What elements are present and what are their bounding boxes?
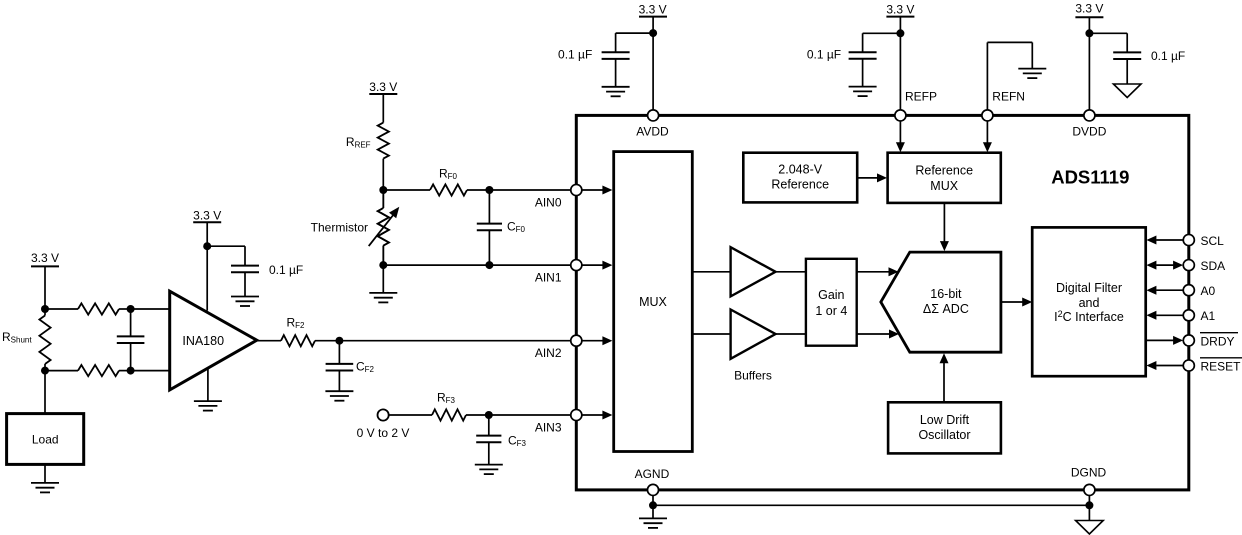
wire MUX to buffer A (692, 271, 730, 273)
svg-text:MUX: MUX (930, 179, 958, 193)
ground DVDD bypass cap (signal gnd) (1113, 84, 1141, 98)
resistor R input top (shunt+ to INA180) (45, 303, 131, 314)
wire AIN1 to pin (383, 264, 570, 266)
svg-text:AIN1: AIN1 (535, 270, 562, 284)
svg-text:3.3 V: 3.3 V (369, 80, 397, 94)
ground AVDD bypass cap (602, 87, 630, 97)
node input filter bottom (127, 367, 135, 375)
label 0.1uF (INA180 bypass) (269, 263, 303, 277)
svg-text:Reference: Reference (915, 164, 973, 178)
svg-text:3.3 V: 3.3 V (193, 208, 221, 222)
svg-text:ADS1119: ADS1119 (1051, 166, 1129, 187)
pin REFN (982, 90, 1025, 121)
IC U1 ADS1119 body (576, 115, 1189, 490)
capacitor CF2 (326, 341, 375, 392)
resistor RShunt (2, 309, 51, 371)
svg-text:3.3 V: 3.3 V (886, 3, 914, 17)
node input filter top (127, 305, 135, 313)
node AVDD bypass junction (649, 29, 657, 37)
wire arrow AIN3 to MUX (582, 411, 612, 420)
node AIN2 filter junction (335, 337, 343, 345)
label 0.1uF (AVDD bypass) (558, 48, 592, 62)
pin DVDD (1072, 110, 1106, 139)
wire arrow 2.048-V Reference to Reference MUX (857, 173, 887, 182)
wire arrow SDA (1146, 261, 1183, 270)
wire arrow A1 (1146, 311, 1183, 320)
pin AGND (635, 467, 670, 495)
svg-text:I2C Interface: I2C Interface (1054, 309, 1124, 324)
capacitor CF0 (477, 190, 526, 265)
block Digital Filter and I2C Interface (1032, 227, 1146, 376)
resistor RF3 (389, 391, 489, 421)
node DVDD bypass junction (1085, 29, 1093, 37)
power supply 3.3V (shunt) (31, 251, 59, 309)
block Low Drift Oscillator (888, 402, 1001, 453)
svg-text:Buffers: Buffers (734, 369, 772, 383)
svg-text:0.1 µF: 0.1 µF (558, 48, 592, 62)
svg-text:0.1 µF: 0.1 µF (807, 48, 841, 62)
node shunt bottom junction (41, 367, 49, 375)
ground INA180 (194, 368, 222, 410)
wire arrow Oscillator to ADC (940, 353, 949, 402)
ground INA180 bypass cap (231, 297, 259, 307)
pin SDA (1183, 259, 1225, 273)
wire arrow Gain to ADC (top) (857, 267, 899, 276)
pin A0 (1183, 284, 1215, 298)
svg-text:MUX: MUX (639, 295, 667, 309)
node DGND junction (1085, 501, 1093, 509)
wire arrow SCL (1146, 236, 1183, 245)
svg-text:DRDY: DRDY (1201, 334, 1235, 348)
block Reference MUX (888, 153, 1001, 203)
ground REFP bypass cap (849, 87, 877, 97)
capacitor 0.1uF (DVDD bypass) (1089, 33, 1141, 84)
block Load (7, 414, 84, 465)
buffer amplifier B (AINN) (731, 310, 776, 359)
svg-text:AIN2: AIN2 (535, 346, 562, 360)
ground DGND (signal gnd) (1076, 505, 1104, 534)
node INA180 supply junction (203, 242, 211, 250)
wire arrow ADC to Digital Filter (1001, 298, 1032, 307)
resistor RF2 (257, 316, 340, 347)
ground thermistor (369, 265, 397, 302)
wire shunt to load (44, 371, 46, 414)
svg-text:A1: A1 (1201, 309, 1216, 323)
wire arrow AIN2 to MUX (582, 336, 612, 345)
pin AIN2 (535, 335, 582, 360)
power supply 3.3V (RREF) (369, 80, 397, 122)
svg-text:A0: A0 (1201, 284, 1216, 298)
ground CF3 (475, 465, 503, 475)
svg-text:0 V to 2 V: 0 V to 2 V (357, 426, 410, 440)
block 2.048-V Reference (743, 153, 857, 203)
pin AIN3 (535, 409, 582, 434)
wire arrow A0 (1146, 286, 1183, 295)
svg-text:Thermistor: Thermistor (311, 221, 368, 235)
svg-text:RESET: RESET (1201, 359, 1242, 373)
wire AIN3 to pin (489, 414, 571, 416)
pin DGND (1071, 466, 1107, 496)
ADC block 16-bit delta-sigma (881, 252, 1001, 352)
node shunt top junction (41, 305, 49, 313)
capacitor CF3 (476, 415, 526, 465)
svg-text:16-bit: 16-bit (930, 287, 962, 301)
pin SCL (1183, 234, 1224, 248)
ground AGND (earth) (639, 505, 667, 528)
svg-text:AVDD: AVDD (636, 125, 669, 139)
capacitor input differential filter (117, 309, 145, 371)
resistor RREF (346, 123, 389, 190)
svg-text:ΔΣ ADC: ΔΣ ADC (923, 302, 969, 316)
node AIN0 divider junction (379, 186, 387, 194)
wire AIN2 to pin (339, 340, 570, 342)
wire arrow REFP to Reference MUX (896, 121, 905, 152)
terminal 0V-2V input (357, 409, 410, 440)
node CF3 junction (485, 411, 493, 419)
wire REFN to ground (987, 42, 1032, 109)
label ADS1119 (1051, 166, 1129, 187)
label Buffers (734, 369, 772, 383)
wire to op-amp - input (131, 370, 170, 372)
svg-text:0.1 µF: 0.1 µF (1151, 49, 1185, 63)
svg-text:1 or 4: 1 or 4 (815, 304, 847, 318)
op-amp U2 INA180 (170, 291, 257, 390)
svg-text:3.3 V: 3.3 V (31, 251, 59, 265)
svg-text:Oscillator: Oscillator (918, 428, 970, 442)
svg-text:2.048-V: 2.048-V (778, 162, 822, 176)
svg-text:Digital Filter: Digital Filter (1056, 281, 1122, 295)
svg-text:Low Drift: Low Drift (920, 413, 970, 427)
wire MUX to buffer B (692, 333, 730, 335)
node CF0 top junction (485, 186, 493, 194)
capacitor 0.1uF (REFP bypass) (849, 33, 901, 86)
wire buffer A to Gain block (776, 271, 806, 273)
wire AIN0 to pin (489, 189, 570, 191)
svg-text:SCL: SCL (1201, 234, 1225, 248)
wire arrow AIN0 to MUX (582, 186, 612, 195)
capacitor 0.1uF (AVDD bypass) (602, 33, 654, 87)
wire arrow DRDY (1146, 336, 1183, 345)
pin REFP (895, 90, 937, 121)
wire arrow RESET (1146, 361, 1183, 370)
ground below Load (31, 464, 59, 492)
node AIN1 divider junction (379, 261, 387, 269)
power supply 3.3V (DVDD) (1075, 2, 1103, 110)
svg-text:REFP: REFP (905, 90, 937, 104)
node AGND junction (649, 501, 657, 509)
svg-text:SDA: SDA (1201, 259, 1226, 273)
label 0.1uF (DVDD bypass) (1151, 49, 1185, 63)
pin AVDD (636, 110, 669, 139)
svg-text:Reference: Reference (771, 177, 829, 191)
wire arrow REFN to Reference MUX (983, 121, 992, 152)
pin DRDY (1183, 333, 1238, 349)
ground REFN (1018, 69, 1046, 79)
wire AGND to ground bus (652, 496, 654, 506)
thermistor RT (311, 190, 400, 265)
wire arrow Gain to ADC (bottom) (857, 330, 899, 339)
svg-text:0.1 µF: 0.1 µF (269, 263, 303, 277)
svg-text:3.3 V: 3.3 V (1075, 2, 1103, 16)
wire buffer B to Gain block (776, 333, 806, 335)
svg-text:DGND: DGND (1071, 466, 1107, 480)
wire to op-amp + input (131, 308, 170, 310)
svg-text:Gain: Gain (818, 288, 844, 302)
wire DGND to ground bus (1088, 496, 1090, 506)
buffer amplifier A (AINP) (731, 247, 776, 296)
wire arrow AIN1 to MUX (582, 261, 612, 270)
wire ground bus AGND-DGND (653, 504, 1089, 506)
svg-text:and: and (1079, 296, 1100, 310)
svg-text:DVDD: DVDD (1072, 125, 1106, 139)
ground CF2 (325, 391, 353, 401)
power supply 3.3V (REFP) (886, 3, 914, 110)
block MUX (614, 152, 693, 452)
svg-text:INA180: INA180 (182, 334, 224, 348)
resistor R input bottom (shunt- to INA180) (45, 365, 131, 376)
svg-text:AGND: AGND (635, 467, 670, 481)
node REFP bypass junction (896, 29, 904, 37)
svg-text:AIN0: AIN0 (535, 195, 562, 209)
node CF0 bottom junction (485, 261, 493, 269)
svg-text:Load: Load (32, 433, 59, 447)
svg-text:3.3 V: 3.3 V (639, 3, 667, 17)
resistor RF0 (383, 167, 489, 196)
capacitor 0.1uF (INA180 bypass) (207, 246, 259, 296)
svg-text:AIN3: AIN3 (535, 420, 562, 434)
pin AIN0 (535, 184, 582, 209)
label 0.1uF (REFP bypass) (807, 48, 841, 62)
power supply 3.3V (AVDD) (639, 3, 667, 110)
block Gain 1 or 4 (806, 259, 857, 346)
svg-text:REFN: REFN (992, 90, 1025, 104)
power supply 3.3V (INA180) (193, 208, 221, 310)
pin A1 (1183, 309, 1215, 323)
pin RESET (1183, 358, 1242, 374)
pin AIN1 (535, 260, 582, 285)
wire arrow Reference MUX to ADC (940, 203, 949, 251)
